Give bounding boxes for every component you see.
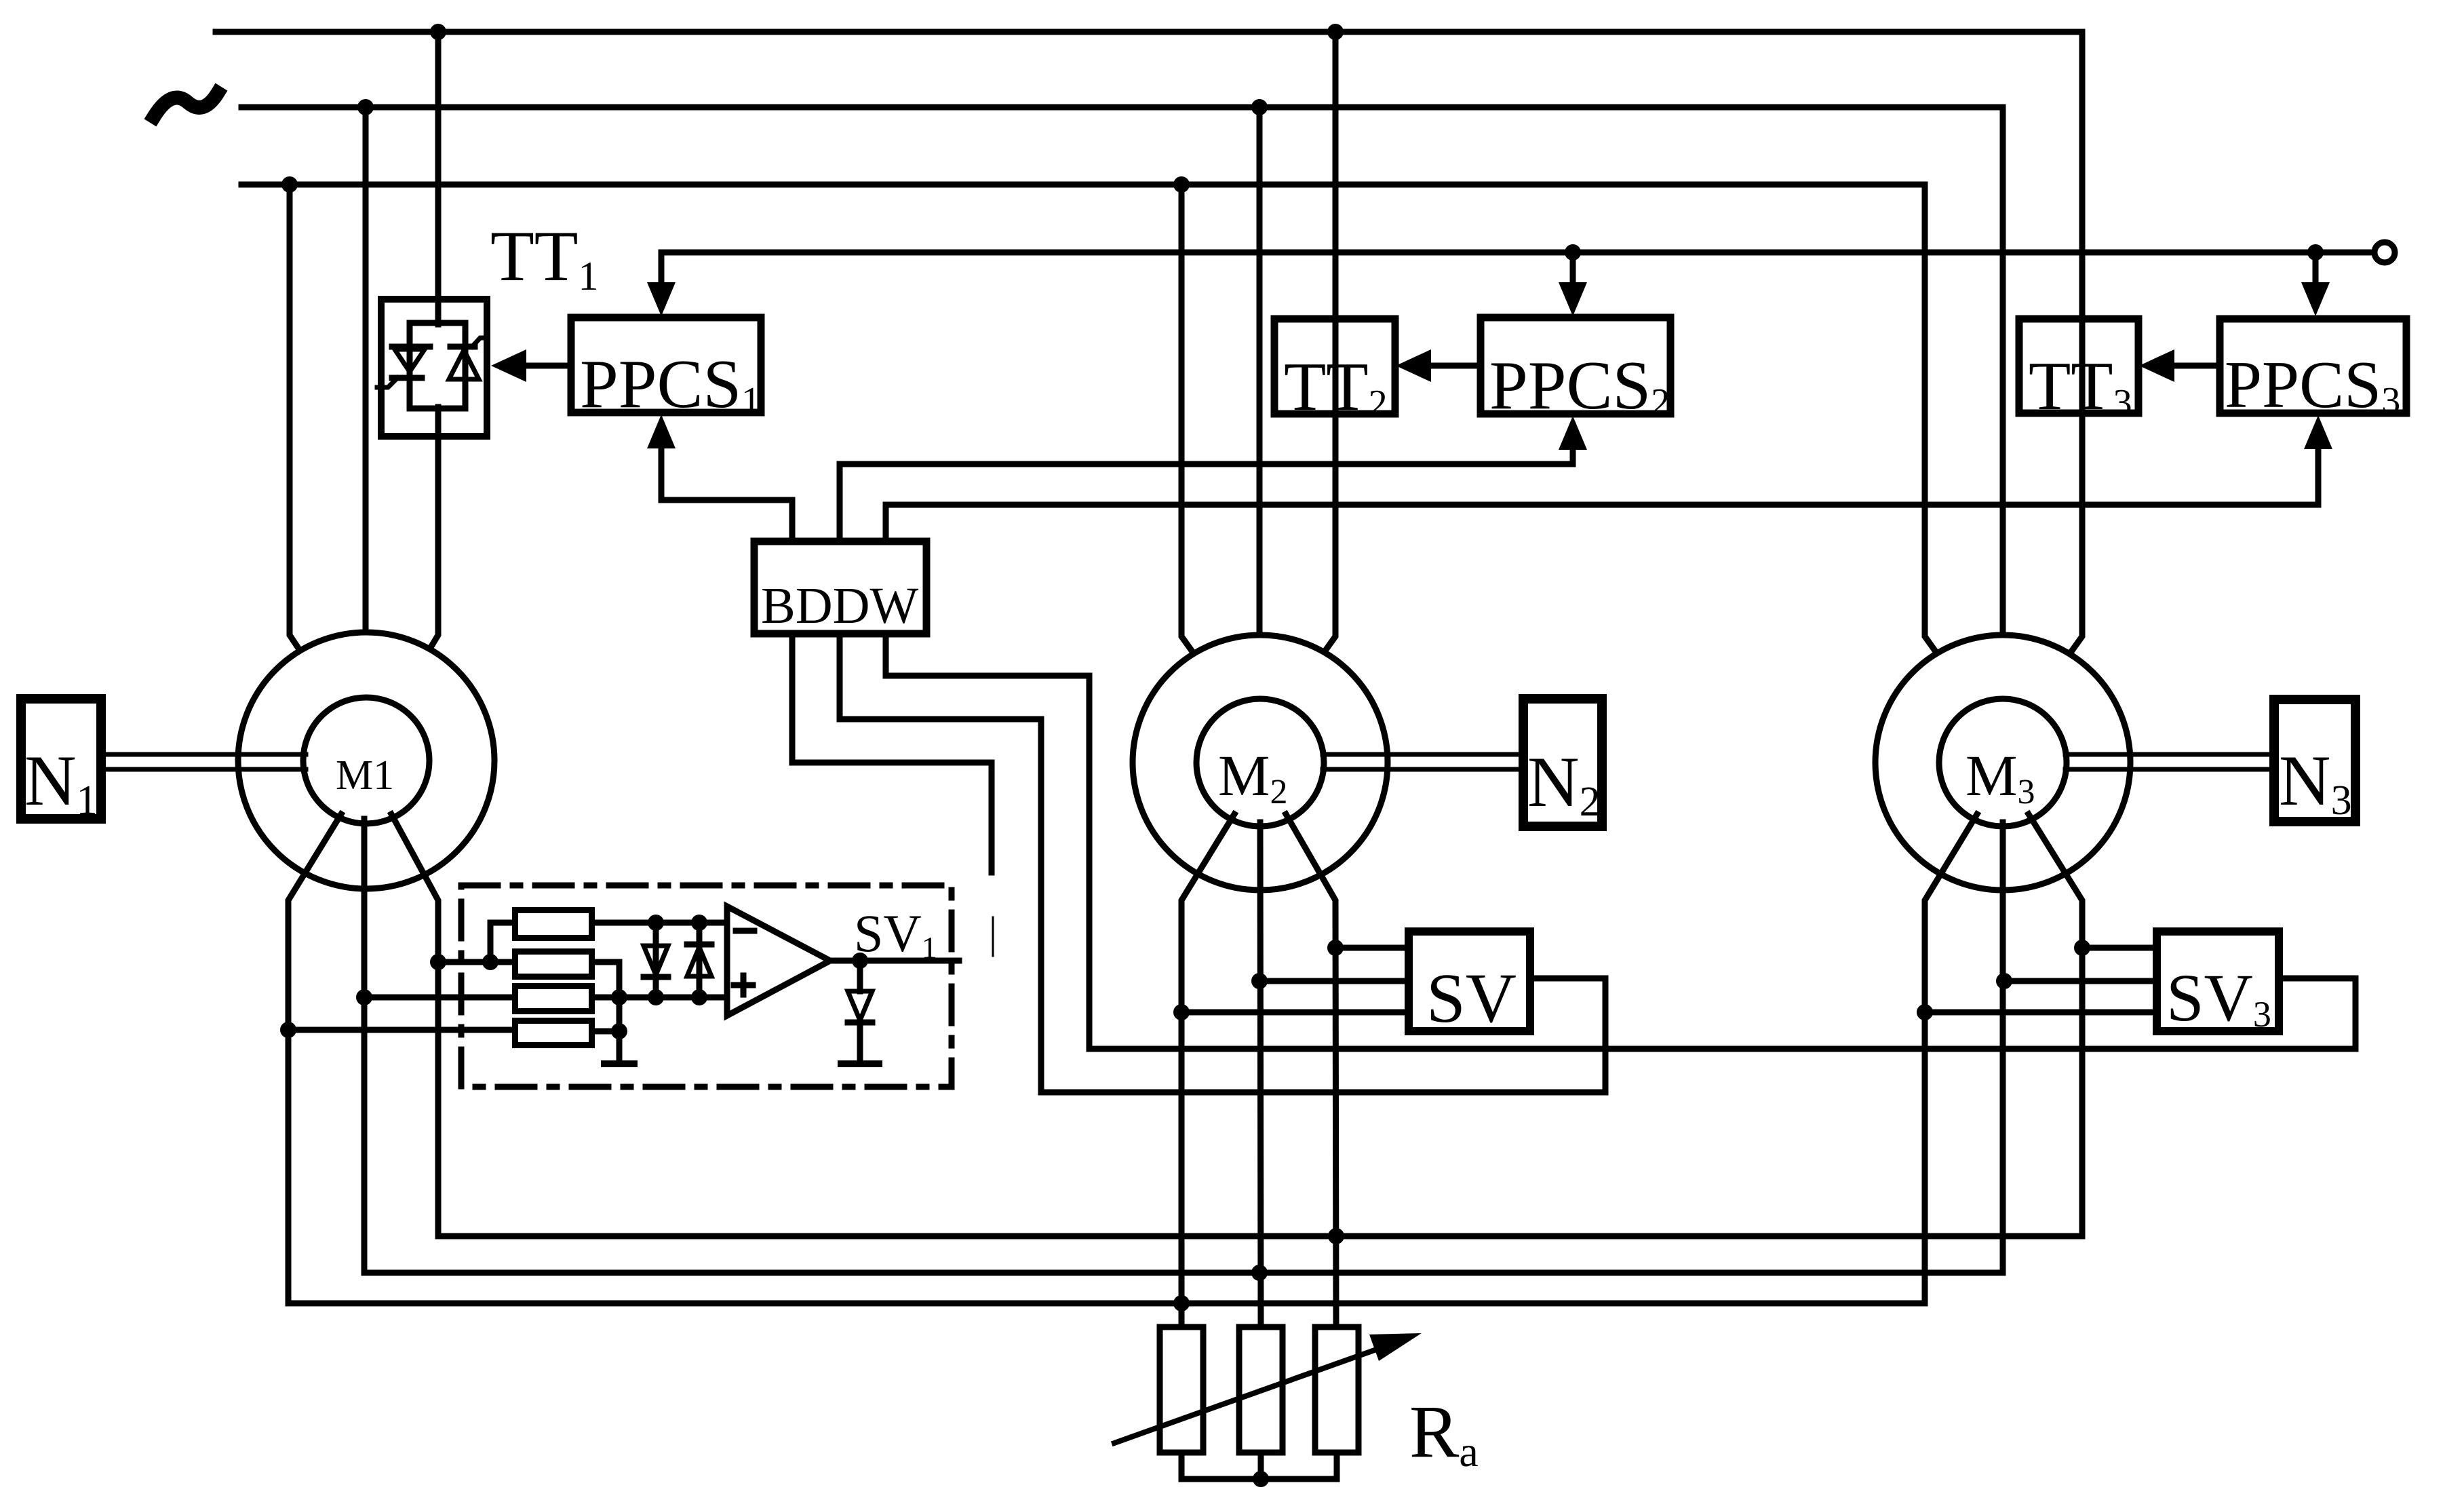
resistor Ra phase 2 [1239, 1327, 1283, 1453]
wire BDDW to PPCS3 + arrow [886, 448, 2318, 541]
wire M3 to SV3 input 1 [2082, 945, 2157, 951]
controller PPCS1 [571, 318, 761, 412]
svg-text:PPCS1: PPCS1 [580, 346, 760, 423]
node SV3 in1 [2074, 940, 2090, 956]
wire M1 rotor out right [391, 814, 438, 1236]
node rotor bus1 [1328, 1228, 1344, 1244]
wire R2 down to plus rail [595, 962, 619, 997]
node L1-M1 [430, 24, 446, 40]
wire op-amp output [830, 958, 959, 964]
resistor R2 [515, 952, 592, 977]
speed sensor SV3 box [2157, 932, 2279, 1031]
control block BDDW [754, 541, 926, 634]
wire BDDW to PPCS2 + arrow [840, 448, 1573, 541]
node SV1 in3 [280, 1022, 296, 1038]
wire gate feed to PPCS1 + arrow [659, 252, 665, 288]
wire TT3 internal [2079, 319, 2086, 413]
node SV3 in2 [1996, 973, 2012, 989]
node feed-PPCS2 [1565, 244, 1581, 261]
thyristor module TT1 outer box [381, 299, 487, 436]
node rotor bus3 [1173, 1295, 1190, 1311]
wire Ra bottom tie [1181, 1453, 1337, 1479]
wire M1 to SV1 resistor R3 [364, 995, 512, 1001]
resistor R4 [515, 1021, 592, 1045]
load N2 [1523, 699, 1602, 826]
wire M1 rotor out middle [361, 819, 368, 1273]
wire R1 to op-amp minus [595, 920, 727, 926]
wire M3 rotor out right [2029, 814, 2082, 1236]
motor M1 stator circle [238, 632, 494, 889]
svg-text:TT1: TT1 [490, 216, 599, 299]
node L3-M2 [1173, 176, 1190, 193]
motor M2 stator circle [1133, 635, 1388, 890]
wire M2-N2 shaft [1323, 752, 1523, 757]
ground [841, 1060, 879, 1067]
node rotor bus2 [1251, 1265, 1268, 1281]
wire M3 to SV3 input 2 [2004, 978, 2157, 984]
wire M1 to SV1 resistor R1/R2 [438, 959, 512, 965]
wire R3 to op-amp plus [595, 995, 727, 1001]
wire rotor bus 1 [438, 1233, 2082, 1240]
wire M1 feeder middle [363, 107, 369, 638]
wire M3 feeder left [1925, 185, 1938, 655]
svg-text:PPCS3: PPCS3 [2225, 348, 2400, 422]
wire BDDW to SV3 output loop [886, 634, 2355, 1049]
wire TT2 internal [1333, 319, 1339, 414]
diode D1 (down) [653, 923, 659, 997]
svg-text:PPCS2: PPCS2 [1489, 347, 1670, 424]
wire SV1 output stub [992, 917, 994, 956]
wire rotor bus 2 [364, 1270, 2003, 1276]
node R1R2 [482, 954, 498, 970]
wire BDDW bottom-left to SV1 output area [792, 634, 992, 872]
node SV2 in1 [1327, 940, 1344, 956]
node SV2 in3 [1173, 1004, 1190, 1020]
resistor R1 [515, 910, 592, 938]
wire M2 to SV2 input 3 [1181, 1010, 1409, 1016]
wire gate feed line [661, 250, 2374, 256]
wire M3 rotor out middle [2000, 822, 2006, 1273]
controller PPCS3 [2220, 319, 2406, 413]
wire BDDW to SV2 output loop [840, 634, 1605, 1092]
node D1 top [648, 915, 664, 931]
wire M2 feeder right (through TT2) [1322, 32, 1335, 655]
node op-amp out [852, 953, 868, 969]
thyristor TT1 right device [450, 344, 475, 350]
node SV1 in1 [430, 954, 446, 970]
wire M3-N3 shaft [2065, 752, 2274, 757]
wire M1-N1 shaft [101, 752, 306, 757]
wire L2 phase bus middle [241, 104, 2003, 111]
wire M1 to SV1 resistor R4 [288, 1027, 512, 1033]
node plus rail [611, 989, 627, 1005]
node L1-M2 [1327, 24, 1344, 40]
node ground rail [611, 1023, 627, 1039]
ground [604, 1060, 634, 1067]
svg-text:M1: M1 [336, 752, 394, 799]
resistor Ra phase 3 [1315, 1327, 1358, 1453]
speed sensor SV2 box [1409, 932, 1530, 1031]
wire L1 phase bus top [216, 29, 2082, 35]
thyristor module TT1 inner loop [410, 323, 465, 408]
node SV3 in3 [1917, 1004, 1933, 1020]
node feed-PPCS3 [2307, 244, 2324, 261]
terminal circle [2374, 242, 2395, 263]
svg-text:SV1: SV1 [854, 904, 937, 965]
node D2 top [691, 915, 707, 931]
node Ra tie [1253, 1471, 1269, 1487]
motor M1 rotor circle [303, 697, 429, 824]
resistor R3 [515, 986, 592, 1012]
wire M3 feeder middle [2000, 107, 2006, 638]
wire M2 to SV2 input 2 [1259, 978, 1409, 984]
wire gate feed to PPCS3 + arrow [2313, 252, 2319, 288]
wire M2 feeder left [1181, 185, 1195, 655]
wire rotor bus 3 [288, 1301, 1925, 1307]
motor M2 rotor circle [1196, 699, 1324, 826]
motor M3 rotor circle [1939, 699, 2067, 826]
wire BDDW to PPCS1 + arrow [661, 446, 792, 541]
wire M1 rotor out left [288, 814, 341, 1303]
motor M3 stator circle [1875, 635, 2130, 890]
node L2-M1 [357, 99, 374, 115]
node SV2 in2 [1251, 973, 1268, 989]
wire M2 rotor out middle [1260, 822, 1261, 1330]
controller PPCS2 [1481, 318, 1670, 414]
load N1 [21, 699, 101, 819]
node D1 bottom [648, 989, 664, 1005]
wire M2 rotor out right [1286, 814, 1336, 1330]
wire M3 to SV3 input 3 [1925, 1010, 2157, 1016]
speed sensor SV1 dash-dot boundary [461, 885, 952, 1087]
diode D2 (up) [697, 923, 703, 997]
node SV1 in2 [356, 989, 372, 1005]
thyristor module TT2 [1274, 319, 1395, 414]
arrow PPCS1 to TT1 [526, 363, 571, 369]
load N3 [2274, 699, 2355, 822]
node L3-M1 [281, 176, 298, 193]
thyristor TT1 left device [392, 344, 430, 350]
arrow PPCS3 to TT3 [2174, 363, 2220, 369]
wire M1 feeder right (through TT1) [435, 32, 442, 324]
svg-text:BDDW: BDDW [761, 577, 918, 634]
wire junction jog to R1 [490, 923, 512, 962]
thyristor module TT3 [2019, 319, 2138, 413]
wire M3 rotor out left [1925, 814, 1977, 1303]
svg-text:Ra: Ra [1409, 1390, 1479, 1476]
node D2 bottom [691, 989, 707, 1005]
node L2-M2 [1251, 99, 1268, 115]
wire R4 to ground rail [595, 1029, 619, 1035]
wire L3 phase bus bottom [241, 182, 1925, 188]
arrow Ra variable [1114, 1348, 1380, 1443]
wire M1 feeder left [290, 185, 303, 655]
wire ground rail [617, 997, 623, 1064]
arrow PPCS2 to TT2 [1431, 363, 1481, 369]
op-amp U1 [727, 906, 830, 1016]
zener diode Z1 [857, 961, 863, 991]
wire M2 rotor out left [1181, 814, 1234, 1330]
wire gate feed to PPCS2 + arrow [1570, 252, 1576, 288]
wire M3 feeder right (through TT3) [2069, 32, 2082, 655]
wire M2 feeder middle [1257, 107, 1263, 638]
svg-text:SV: SV [1426, 959, 1517, 1037]
resistor Ra phase 1 [1160, 1327, 1203, 1453]
AC source symbol ~ [154, 93, 218, 117]
wire M2 to SV2 input 1 [1335, 945, 1409, 951]
